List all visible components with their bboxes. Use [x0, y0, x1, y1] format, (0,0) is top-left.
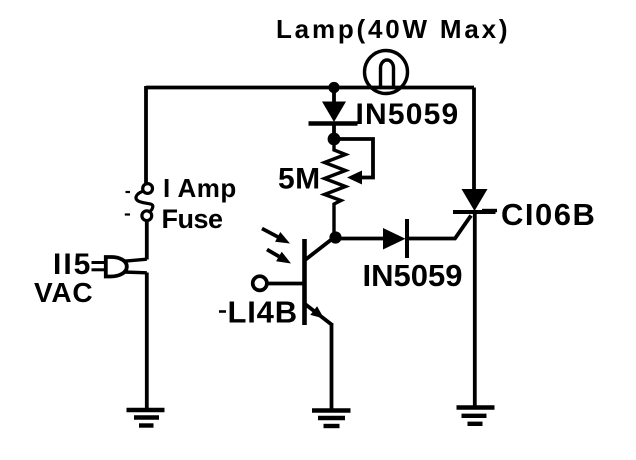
wire: D2 cathode to SCR gate	[407, 216, 471, 239]
phototransistor Q1 L14B: base bar	[302, 239, 307, 325]
svg-text:LI4B: LI4B	[228, 295, 298, 330]
wire: top rail	[146, 86, 474, 90]
label leader dash for C106B	[482, 209, 497, 212]
phototransistor Q1: collector lead	[305, 238, 334, 261]
junction dot: top rail / D1 anode	[328, 82, 339, 93]
lamp LP1 (40W)	[365, 51, 408, 94]
svg-text:IN5059: IN5059	[356, 98, 460, 131]
junction dot: D1 cathode / R1 top / wiper loop	[328, 133, 341, 146]
light arrow 2 (lower)	[267, 250, 291, 264]
phototransistor Q1: base terminal circle	[253, 276, 267, 290]
svg-text:Fuse: Fuse	[162, 204, 224, 234]
fuse F1 (1 Amp)	[136, 184, 153, 221]
svg-text:5M: 5M	[278, 163, 321, 196]
light arrow 1 (upper)	[262, 229, 290, 244]
phototransistor Q1: emitter lead with arrow	[305, 304, 332, 325]
wire: right vertical (top rail to SCR anode)	[472, 88, 476, 191]
plug P1: leads to wire	[124, 259, 147, 273]
svg-text:CI06B: CI06B	[501, 197, 596, 232]
phototransistor Q1: base lead	[268, 282, 304, 286]
wire: node to D2 anode	[336, 237, 385, 241]
junction dot: R1 bottom / Q1 collector / D2 anode	[329, 231, 341, 243]
label: L14B with leading dash	[219, 310, 226, 313]
svg-text:Lamp(40W Max): Lamp(40W Max)	[276, 14, 510, 44]
wire: SCR cathode down to ground	[473, 212, 477, 406]
plug P1: prongs	[92, 263, 107, 270]
svg-text:I Amp: I Amp	[163, 173, 237, 203]
ground: right	[457, 408, 495, 424]
ground: middle	[312, 411, 351, 427]
wire: wiper feedback loop with arrow into R1	[334, 139, 373, 185]
ground: left	[127, 410, 165, 426]
SCR U1 C106B	[453, 189, 496, 212]
artifact dashes left of fuse	[125, 192, 130, 215]
wire: emitter down to ground	[330, 323, 334, 409]
diode D2 1N5059 (horizontal, pointing right)	[383, 219, 407, 258]
wire: fuse to plug	[145, 221, 149, 260]
potentiometer R1 5M (zigzag)	[325, 145, 346, 236]
diode D1 1N5059 (vertical, pointing down)	[309, 89, 358, 136]
wire: left vertical (top rail down to fuse)	[144, 86, 148, 184]
plug P1: body	[106, 257, 127, 277]
svg-text:IN5059: IN5059	[363, 258, 463, 293]
svg-text:VAC: VAC	[34, 277, 93, 308]
wire: plug down to ground	[145, 273, 149, 410]
